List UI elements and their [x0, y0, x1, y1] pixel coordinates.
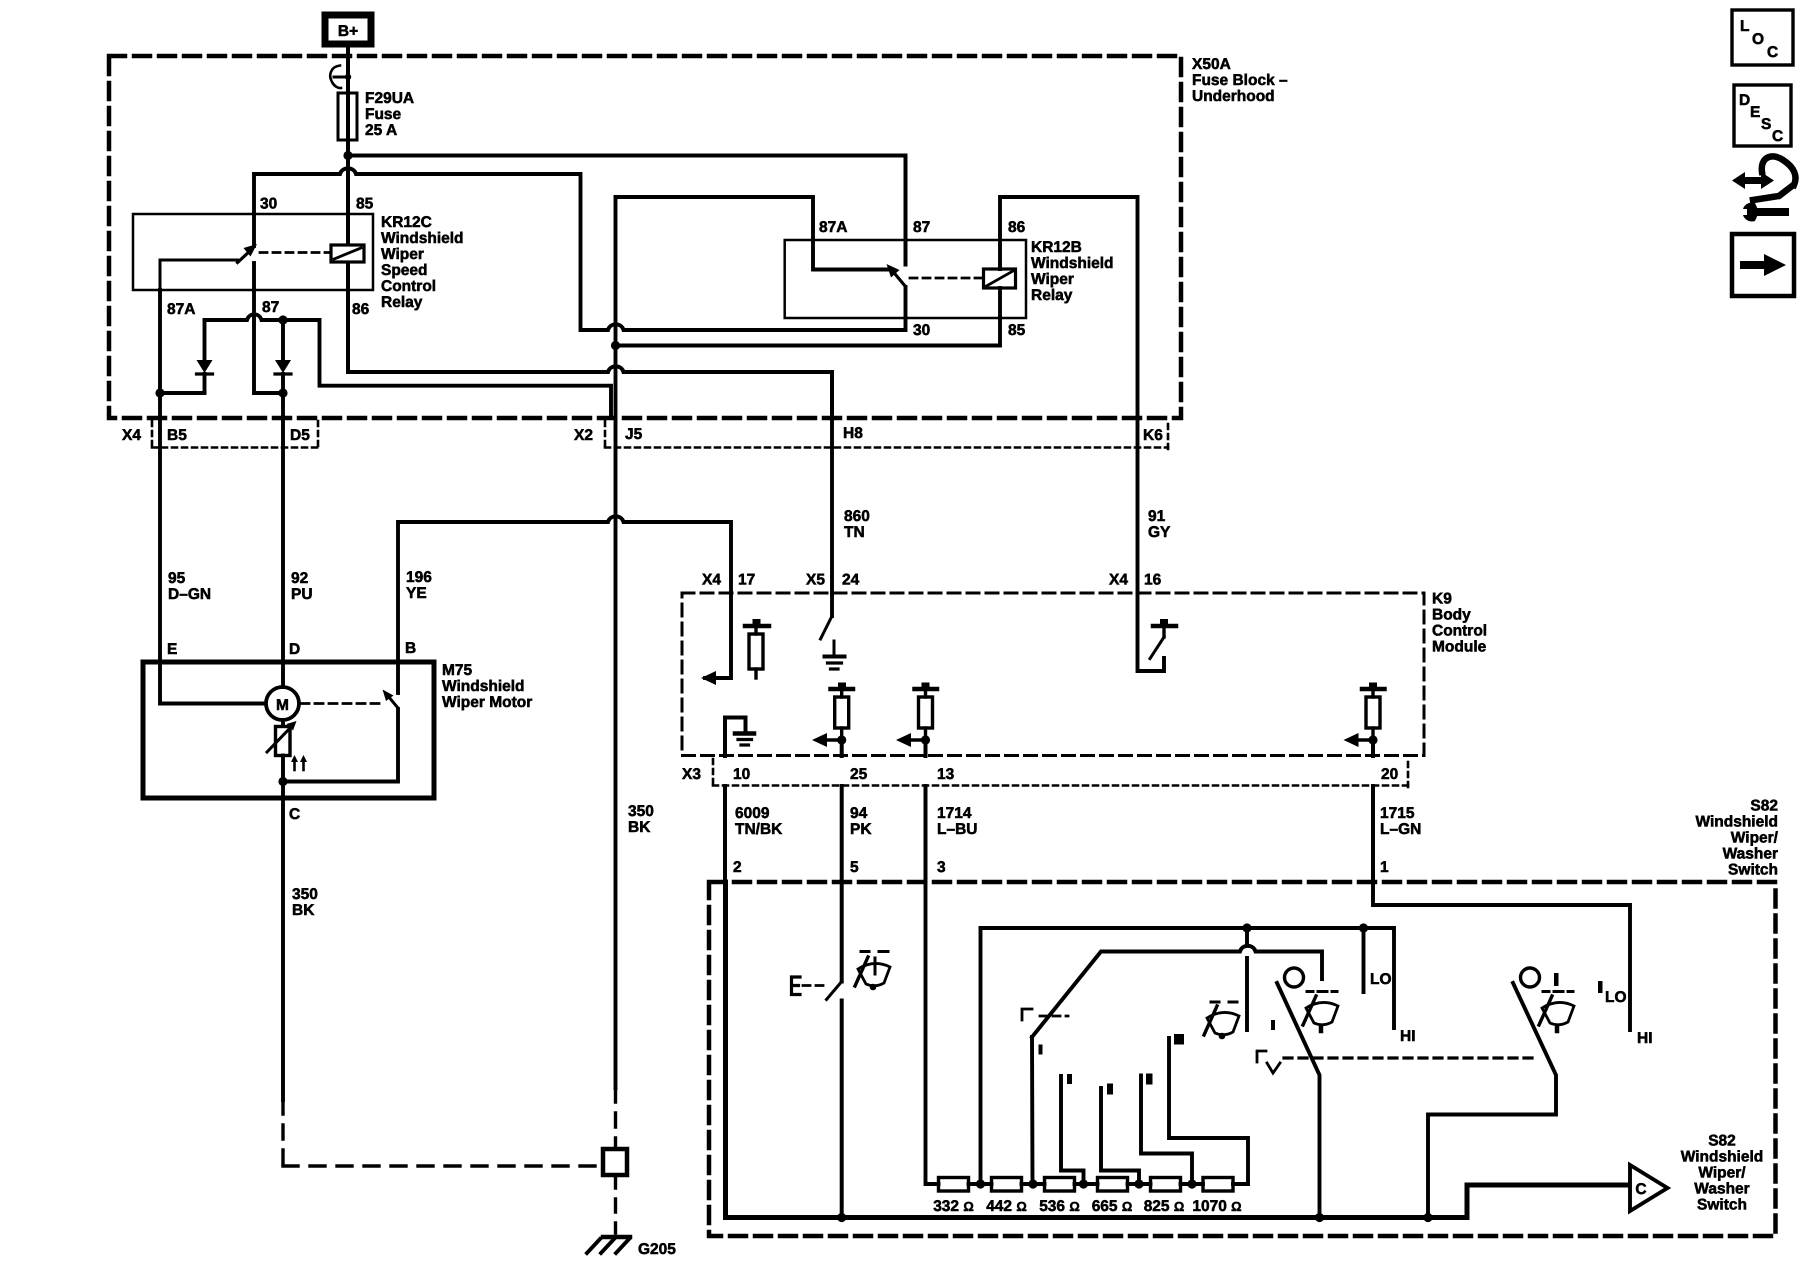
svg-text:D: D: [289, 641, 300, 658]
svg-text:442 Ω: 442 Ω: [986, 1198, 1027, 1215]
svg-text:L: L: [1740, 18, 1749, 35]
svg-text:Wiper: Wiper: [381, 246, 424, 263]
KR12C pin 87A internal wire: [160, 260, 238, 290]
svg-text:91: 91: [1148, 508, 1166, 525]
page icon forward arrow: [1732, 234, 1794, 296]
KR12C relay label: [381, 214, 464, 311]
selector contact tick: [1039, 1045, 1043, 1055]
svg-text:X3: X3: [682, 766, 701, 783]
switch2 blade to bus: [1428, 983, 1556, 1218]
svg-text:87: 87: [913, 219, 930, 236]
svg-text:85: 85: [1008, 322, 1026, 339]
svg-text:20: 20: [1381, 766, 1398, 783]
connector row X2 J5 H8 K6 fine dashed: [605, 421, 1168, 451]
KR12C pin 87 internal stub: [252, 263, 256, 290]
resistor 536 ohm: [1045, 1178, 1098, 1192]
contact pad3: [1067, 1074, 1072, 1084]
svg-text:C: C: [1767, 44, 1778, 61]
svg-text:13: 13: [937, 766, 955, 783]
wire KR12C 87 down: [254, 290, 283, 393]
switch2 wiper icon: [1539, 992, 1574, 1032]
svg-text:87: 87: [262, 299, 279, 316]
svg-text:X2: X2: [574, 427, 593, 444]
connector labels X4 B5 D5: [122, 427, 310, 444]
svg-text:1: 1: [1380, 859, 1389, 876]
svg-text:Wiper: Wiper: [1031, 271, 1074, 288]
park run wire down to wiper icon: [1245, 928, 1249, 1030]
switch2 pivot tick: [1554, 973, 1559, 986]
svg-text:L–BU: L–BU: [937, 821, 977, 838]
svg-text:HI: HI: [1637, 1030, 1653, 1047]
diode bottom tie to 87A wire: [160, 391, 205, 395]
svg-text:LO: LO: [1370, 971, 1392, 988]
svg-text:Switch: Switch: [1697, 1197, 1747, 1214]
KR12B relay box: [785, 240, 1026, 318]
KR12C relay box: [133, 214, 373, 290]
KR12B pin 86 wire up and over to K6: [1000, 197, 1138, 418]
pull-up resistor pin 17: [745, 619, 769, 678]
svg-text:PK: PK: [850, 821, 872, 838]
S82 switch label upper: [1695, 798, 1778, 879]
svg-text:BK: BK: [628, 819, 651, 836]
svg-text:YE: YE: [406, 585, 427, 602]
svg-text:C: C: [1635, 1181, 1646, 1198]
switch2 pivot circle: [1521, 968, 1540, 987]
washer switch blade E: [827, 982, 842, 1000]
selector mech link dashes: [1022, 1009, 1068, 1020]
label 91 GY: [1148, 508, 1171, 541]
svg-text:Wiper/: Wiper/: [1698, 1165, 1746, 1182]
svg-text:TN: TN: [844, 524, 865, 541]
splice S square: [603, 1149, 627, 1175]
junction dot tap5: [1187, 1179, 1196, 1188]
svg-text:Relay: Relay: [1031, 287, 1073, 304]
svg-text:95: 95: [168, 570, 186, 587]
label 92 PU: [291, 570, 313, 603]
washer spray icon: [855, 952, 890, 991]
svg-text:Control: Control: [381, 278, 436, 295]
svg-text:M: M: [276, 697, 289, 714]
contact pad5: [1146, 1074, 1153, 1085]
diode D1: [197, 320, 213, 393]
svg-text:536 Ω: 536 Ω: [1039, 1198, 1080, 1215]
svg-text:B: B: [405, 640, 416, 657]
svg-text:S: S: [1761, 116, 1771, 133]
KR12B pin 85 internal stub: [998, 288, 1002, 318]
svg-text:825 Ω: 825 Ω: [1144, 1198, 1185, 1215]
svg-text:1070 Ω: 1070 Ω: [1192, 1198, 1241, 1215]
junction dot tap4: [1134, 1179, 1143, 1188]
svg-text:GY: GY: [1148, 524, 1171, 541]
switch1 pivot circle: [1285, 968, 1304, 987]
wire J5 to KR12B pin 85: [616, 318, 1001, 346]
svg-text:L–GN: L–GN: [1380, 821, 1421, 838]
switch1 wiper icon: [1303, 992, 1338, 1032]
label 860 TN: [844, 508, 870, 541]
svg-text:30: 30: [260, 196, 277, 213]
feed bus to LO HI contacts (switch 1): [981, 928, 1395, 1028]
svg-text:PU: PU: [291, 586, 313, 603]
ground symbol pin 24: [825, 641, 845, 669]
thermal arrows: [291, 755, 307, 770]
ground symbol G205: [587, 1237, 630, 1253]
svg-text:1714: 1714: [937, 805, 972, 822]
motor pin labels E D B C: [167, 640, 416, 823]
fuse F29UA 25 A: [338, 93, 357, 140]
BCM top connector labels: [702, 572, 1162, 589]
BCM pin 25 pull-up with arrow: [812, 683, 853, 757]
motor M75 box: [143, 662, 434, 798]
svg-text:C: C: [1772, 128, 1783, 145]
S82 pin numbers 2 5 3 1: [733, 859, 1389, 876]
dashed wire splice to ground G205: [614, 1175, 617, 1233]
svg-text:BK: BK: [292, 902, 315, 919]
svg-text:87A: 87A: [167, 301, 195, 318]
wire KR12C 87A down: [158, 290, 162, 393]
svg-text:85: 85: [356, 196, 374, 213]
wire KR12C pin 30 to KR12B pin 30 (with hops): [254, 168, 906, 330]
diode D2: [275, 320, 291, 393]
wire fuse to junction: [346, 140, 350, 214]
svg-text:5: 5: [850, 859, 859, 876]
fuse block X50A dashed border: [109, 56, 1181, 418]
KR12B coil link dashed: [910, 277, 982, 280]
label 196 YE: [406, 569, 432, 602]
label 1714 L-BU: [937, 805, 977, 838]
svg-text:X50A: X50A: [1192, 56, 1231, 73]
X50A label: [1192, 56, 1288, 105]
svg-text:Windshield: Windshield: [1695, 814, 1778, 831]
svg-text:25 A: 25 A: [365, 122, 397, 139]
wire J5 vertical (350 BK upper): [614, 197, 618, 1088]
svg-text:Fuse: Fuse: [365, 106, 402, 123]
svg-text:LO: LO: [1605, 989, 1627, 1006]
motor E internal wire: [160, 662, 265, 704]
KR12B pin 30 internal stub: [904, 287, 908, 318]
junction dot tap1: [976, 1179, 985, 1188]
KR12C coil: [331, 245, 364, 262]
resistor 1070 ohm: [1203, 1178, 1248, 1192]
svg-text:Wiper/: Wiper/: [1731, 830, 1779, 847]
contact pad4: [1107, 1084, 1113, 1095]
BCM pin 20 pull-up with arrow: [1344, 683, 1385, 757]
junction dot blade2 bus: [1423, 1213, 1432, 1222]
wire 1714 L-BU circuit pin13 to S82 pin3: [924, 786, 928, 882]
svg-text:24: 24: [842, 572, 860, 589]
label 95 D-GN: [168, 570, 211, 603]
motor dashed link to park switch: [301, 702, 380, 705]
svg-text:X5: X5: [806, 572, 825, 589]
svg-text:2: 2: [733, 859, 742, 876]
svg-text:C: C: [289, 806, 300, 823]
svg-text:F29UA: F29UA: [365, 90, 414, 107]
svg-text:Control: Control: [1432, 623, 1487, 640]
svg-text:350: 350: [292, 886, 318, 903]
motor resistor to C wire: [281, 756, 285, 799]
svg-text:6009: 6009: [735, 805, 770, 822]
wire KR12C pin 86 to H8 (with hop): [348, 214, 832, 418]
svg-text:332 Ω: 332 Ω: [933, 1198, 974, 1215]
KR12C pin labels: [167, 196, 374, 319]
KR12B pin labels: [819, 219, 1026, 339]
connector labels X2 J5 H8 K6: [574, 425, 1163, 444]
motor park switch blade: [283, 662, 398, 782]
battery positive terminal B+: [325, 15, 371, 44]
page icon diagnostic arrows and wrench: [1732, 156, 1796, 221]
svg-text:Module: Module: [1432, 639, 1487, 656]
wire 95 D-GN circuit B5 to motor E: [158, 393, 162, 662]
wire J5 top run to KR12B pin 87A: [616, 197, 890, 270]
svg-text:Wiper Motor: Wiper Motor: [442, 694, 532, 711]
tap2 wire: [1030, 1037, 1034, 1184]
wire 1715 into S82 to HI2 contact: [1373, 882, 1630, 1030]
svg-text:Speed: Speed: [381, 262, 428, 279]
svg-text:Switch: Switch: [1728, 862, 1778, 879]
motor D internal wire: [281, 662, 285, 687]
tap3 wire: [1061, 1076, 1084, 1184]
wire 196 YE circuit motor B to BCM X4-17 (with hop): [398, 516, 731, 662]
KR12C coil link dashed: [260, 251, 330, 254]
connector row X4 B5 D5 fine dashed: [152, 421, 318, 448]
svg-text:86: 86: [1008, 219, 1026, 236]
svg-text:196: 196: [406, 569, 432, 586]
KR12C pin 30 internal stub: [252, 214, 256, 246]
wire 91 GY circuit K6 to BCM X4-16: [1136, 418, 1140, 593]
BCM pin 13 pull-up with arrow: [896, 683, 937, 757]
svg-text:X4: X4: [1109, 572, 1128, 589]
svg-text:86: 86: [352, 301, 370, 318]
wire 6009 TN/BK circuit pin10 to S82 pin2: [723, 786, 727, 882]
junction dot blade1 bus: [1315, 1213, 1324, 1222]
svg-text:Washer: Washer: [1694, 1181, 1749, 1198]
wire 860 TN circuit H8 to BCM X5-24: [830, 418, 834, 593]
svg-text:X4: X4: [122, 427, 141, 444]
svg-text:30: 30: [913, 322, 930, 339]
svg-text:O: O: [1752, 31, 1764, 48]
svg-text:D: D: [1739, 92, 1750, 109]
svg-text:S82: S82: [1750, 798, 1778, 815]
svg-text:KR12C: KR12C: [381, 214, 432, 231]
contact pad6: [1174, 1034, 1184, 1045]
selector blade and link to switch1 feed (hop over park wire): [1032, 946, 1322, 1037]
svg-text:M75: M75: [442, 662, 473, 679]
svg-text:16: 16: [1144, 572, 1162, 589]
svg-text:Windshield: Windshield: [1031, 255, 1114, 272]
svg-text:G205: G205: [638, 1241, 676, 1258]
S82 pin 2 wire to common bus: [726, 882, 1629, 1218]
tap6 wire after 1070 ohm: [1169, 1038, 1248, 1184]
wire 350 BK circuit motor C to splice: [283, 798, 603, 1166]
wiper park icon mid: [1204, 1002, 1239, 1039]
fuse label: [365, 90, 414, 139]
label 6009 TN/BK: [735, 805, 783, 838]
svg-text:HI: HI: [1400, 1028, 1416, 1045]
KR12C switch blade: [238, 244, 258, 263]
output C triangle: [1630, 1165, 1668, 1211]
diode common line (with hop over 87 wire): [205, 314, 612, 418]
junction dot J5/KR12B-85: [611, 341, 620, 350]
junction dot LO1: [1359, 923, 1368, 932]
svg-text:Windshield: Windshield: [442, 678, 525, 695]
junction dot motor C: [278, 777, 287, 786]
label 350 BK for J5 wire: [628, 803, 654, 836]
KR12B coil: [984, 269, 1016, 288]
junction dot B5: [155, 388, 164, 397]
M75 label: [442, 662, 532, 711]
motor variable resistor: [267, 720, 297, 756]
pin 16 switch blade from B+ bar: [1150, 619, 1176, 659]
mid icon tick: [1271, 1020, 1275, 1030]
arrow into module pin 17: [701, 671, 716, 685]
svg-text:25: 25: [850, 766, 868, 783]
svg-text:J5: J5: [625, 426, 643, 443]
wire fuse junction to KR12B pin 87: [348, 156, 906, 265]
BCM pin 16 input wire: [1138, 593, 1165, 671]
svg-text:Windshield: Windshield: [1681, 1149, 1764, 1166]
svg-text:10: 10: [733, 766, 750, 783]
KR12B switch blade: [887, 264, 906, 287]
connector row X3 fine dashed: [713, 759, 1408, 789]
junction dot park feed: [1242, 923, 1251, 932]
svg-text:665 Ω: 665 Ω: [1092, 1198, 1133, 1215]
svg-text:B5: B5: [167, 427, 187, 444]
svg-text:TN/BK: TN/BK: [735, 821, 783, 838]
resistor 332 ohm: [939, 1178, 992, 1192]
wire 350 BK circuit J5 to splice (solid then dashed): [614, 1088, 617, 1148]
svg-text:E: E: [167, 641, 177, 658]
svg-text:Body: Body: [1432, 607, 1471, 624]
BCM pin 10 ground: [725, 718, 754, 757]
junction dot tap3: [1079, 1179, 1088, 1188]
LO contact wire switch1: [1362, 928, 1366, 992]
S82 wiper washer switch dashed box: [709, 882, 1776, 1236]
junction dot at fuse output: [343, 151, 352, 160]
svg-text:D–GN: D–GN: [168, 586, 211, 603]
svg-text:X4: X4: [702, 572, 721, 589]
S82 pin 5 wire lower to bus: [840, 1001, 844, 1218]
BCM pin 17 input wire: [705, 593, 731, 678]
svg-text:94: 94: [850, 805, 868, 822]
switch1 blade to bus: [1277, 983, 1320, 1218]
svg-text:B+: B+: [338, 23, 358, 40]
svg-text:1715: 1715: [1380, 805, 1415, 822]
wire 92 PU circuit D5 to motor D: [281, 393, 285, 662]
tap4 wire: [1101, 1088, 1139, 1184]
S82 pin 3 wire to resistor ladder: [926, 882, 939, 1184]
junction dot tap2: [1028, 1179, 1037, 1188]
body control module K9 dashed box: [682, 593, 1424, 756]
K9 label: [1432, 591, 1487, 656]
svg-text:860: 860: [844, 508, 870, 525]
tap1 wire to feed bus: [979, 928, 983, 1184]
svg-text:KR12B: KR12B: [1031, 239, 1082, 256]
svg-text:D5: D5: [290, 427, 310, 444]
svg-text:Fuse Block –: Fuse Block –: [1192, 72, 1288, 89]
svg-text:S82: S82: [1708, 1133, 1736, 1150]
label 350 BK for motor wire: [292, 886, 318, 919]
wire 1715 L-GN circuit pin20 to S82 pin1: [1371, 786, 1375, 882]
svg-text:92: 92: [291, 570, 308, 587]
svg-text:Windshield: Windshield: [381, 230, 464, 247]
wire 94 PK circuit pin25 to S82 pin5: [840, 786, 844, 882]
svg-text:E: E: [1750, 104, 1760, 121]
resistor 825 ohm: [1151, 1178, 1204, 1192]
mech link dashes switches: [1257, 1051, 1537, 1073]
KR12B relay label: [1031, 239, 1114, 304]
BCM pin 24 switch: [821, 593, 833, 639]
resistor 442 ohm: [992, 1178, 1045, 1192]
resistor 665 ohm: [1098, 1178, 1151, 1192]
KR12B pin 87 internal stub: [904, 240, 908, 265]
junction dot right diode top: [278, 315, 287, 324]
svg-text:350: 350: [628, 803, 654, 820]
svg-text:K6: K6: [1143, 427, 1163, 444]
svg-text:Washer: Washer: [1723, 846, 1778, 863]
svg-text:3: 3: [937, 859, 946, 876]
LO2 tick and label: [1598, 981, 1627, 1006]
washer switch E glyph: [792, 977, 825, 995]
wire B+ to fuse: [330, 48, 351, 93]
junction dot D5: [278, 388, 287, 397]
tap5 wire: [1141, 1076, 1192, 1185]
S82 switch label lower: [1681, 1133, 1764, 1214]
motor armature M circle: [266, 687, 299, 720]
svg-text:17: 17: [738, 572, 755, 589]
S82 pin 5 wire upper: [840, 882, 844, 982]
connector labels X3 10 25 13 20: [682, 766, 1398, 783]
page icon LOC: [1732, 10, 1793, 65]
junction dot pin5 bus: [837, 1213, 846, 1222]
label 94 PK: [850, 805, 872, 838]
label 1715 L-GN: [1380, 805, 1421, 838]
svg-text:Relay: Relay: [381, 294, 423, 311]
svg-text:H8: H8: [843, 425, 863, 442]
page icon DESC: [1734, 85, 1791, 146]
svg-text:K9: K9: [1432, 591, 1452, 608]
svg-text:Underhood: Underhood: [1192, 88, 1275, 105]
svg-text:87A: 87A: [819, 219, 847, 236]
